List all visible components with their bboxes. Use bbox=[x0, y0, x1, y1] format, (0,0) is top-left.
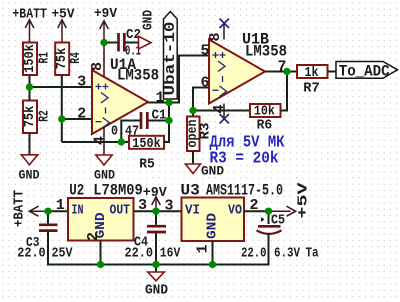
pin 2 stub U2 bbox=[100, 241, 102, 265]
power flag +5V (top) bbox=[58, 20, 67, 42]
wire pin2 bbox=[62, 118, 92, 120]
svg-text:2: 2 bbox=[85, 232, 102, 241]
junction dots overlay bbox=[26, 39, 291, 268]
svg-text:To_ADC: To_ADC bbox=[339, 63, 390, 81]
wire R6 left bbox=[193, 110, 250, 112]
svg-text:U3: U3 bbox=[180, 182, 200, 200]
junction U2 gnd rail bbox=[97, 261, 104, 268]
pin 1 stub U3 bbox=[212, 241, 214, 265]
svg-text:R4: R4 bbox=[68, 52, 84, 64]
svg-text:3: 3 bbox=[77, 74, 86, 91]
global label Ubat-10 bbox=[164, 12, 178, 100]
resistor R1 bbox=[23, 43, 37, 76]
junction node R4/pin2 bbox=[58, 115, 65, 122]
regulator U2 bbox=[68, 198, 134, 241]
junction +BATT/C3 bbox=[44, 208, 51, 215]
svg-text:Ubat-10: Ubat-10 bbox=[162, 22, 179, 96]
junction C1 right bbox=[165, 117, 172, 124]
junction +9V/C2 bbox=[100, 39, 107, 46]
svg-text:22.0: 22.0 bbox=[17, 245, 46, 261]
svg-text:+BATT: +BATT bbox=[12, 7, 47, 23]
capacitor C4 bbox=[155, 211, 157, 225]
svg-text:16V: 16V bbox=[160, 245, 181, 261]
wire R5 right bbox=[164, 103, 169, 143]
svg-text:6: 6 bbox=[201, 75, 210, 92]
svg-text:U2: U2 bbox=[69, 182, 84, 200]
ground bottom rail bbox=[148, 272, 164, 281]
svg-text:VO: VO bbox=[228, 203, 242, 219]
svg-text:R2: R2 bbox=[36, 110, 52, 122]
svg-text:GND: GND bbox=[19, 168, 40, 182]
junction node C1 left bbox=[118, 138, 125, 145]
power flag +5V (right, rotated) bbox=[269, 206, 296, 216]
svg-text:8: 8 bbox=[207, 32, 224, 41]
wire R1 to R2 bbox=[30, 76, 141, 155]
ground under R2 bbox=[21, 155, 37, 165]
capacitor C2 bbox=[119, 33, 125, 52]
ground bottom rail stub bbox=[155, 265, 157, 273]
svg-text:150k: 150k bbox=[132, 136, 161, 152]
svg-text:L78M09: L78M09 bbox=[93, 182, 143, 200]
op-amp U1A bbox=[92, 70, 148, 134]
capacitor C5 (polarized) bbox=[268, 211, 270, 224]
svg-text:+5V: +5V bbox=[296, 182, 312, 219]
svg-text:AMS1117-5.0: AMS1117-5.0 bbox=[206, 182, 283, 200]
svg-text:VI: VI bbox=[185, 203, 200, 219]
svg-text:22.0: 22.0 bbox=[125, 245, 154, 261]
svg-text:3: 3 bbox=[165, 198, 174, 215]
wire pin3 net bbox=[30, 86, 93, 88]
power flag +9V (top) bbox=[100, 21, 109, 54]
svg-text:Ta: Ta bbox=[306, 246, 319, 262]
U1B pin name marks bbox=[213, 52, 227, 97]
power flag +BATT (top) bbox=[25, 20, 34, 42]
svg-text:OUT: OUT bbox=[110, 203, 131, 219]
wire R6 right up to output bbox=[281, 72, 288, 111]
svg-text:+5V: +5V bbox=[52, 7, 76, 23]
wire R4 down to pin2 bbox=[61, 76, 63, 143]
pin 8 stub bbox=[103, 54, 105, 77]
no-connect X pin8 bbox=[220, 19, 230, 29]
svg-text:R3 = 20k: R3 = 20k bbox=[210, 149, 279, 168]
capacitor C1 bbox=[141, 112, 147, 129]
wire R7 to label bbox=[328, 71, 337, 73]
wire C2 to GND bbox=[126, 42, 139, 44]
wire C4 to rail bbox=[155, 233, 157, 264]
svg-text:1: 1 bbox=[56, 197, 65, 214]
junction output node bbox=[165, 99, 172, 106]
resistor R5 bbox=[129, 136, 164, 149]
svg-text:4: 4 bbox=[211, 104, 228, 113]
U1A pin name marks bbox=[96, 84, 110, 129]
svg-text:25V: 25V bbox=[52, 245, 73, 261]
wire C3 to rail bbox=[48, 232, 101, 265]
svg-text:5: 5 bbox=[201, 43, 210, 60]
svg-text:+9V: +9V bbox=[94, 6, 118, 22]
svg-text:GND: GND bbox=[141, 10, 157, 30]
power flag +BATT (left, rotated) bbox=[29, 206, 48, 216]
pin 8 stub U1B bbox=[223, 24, 225, 40]
junction node R1/R2 bbox=[26, 83, 33, 90]
svg-text:R6: R6 bbox=[257, 117, 273, 133]
resistor R6 bbox=[250, 104, 281, 117]
wire U1A output bbox=[148, 56, 209, 103]
wire pin6 feedback bbox=[193, 88, 209, 117]
junction U3 gnd rail bbox=[209, 261, 216, 268]
svg-text:2: 2 bbox=[250, 197, 259, 214]
ground under R3 bbox=[186, 164, 201, 174]
svg-text:C5: C5 bbox=[271, 212, 285, 228]
svg-text:6.3V: 6.3V bbox=[274, 246, 300, 262]
junction OUT node bbox=[152, 208, 159, 215]
svg-text:R5: R5 bbox=[139, 157, 155, 173]
wire R2 to GND bbox=[29, 134, 31, 155]
svg-text:LM358: LM358 bbox=[117, 67, 159, 85]
pin 4 stub bbox=[103, 127, 105, 155]
resistor R4 bbox=[55, 43, 69, 76]
wire C1 left branch bbox=[121, 121, 140, 143]
svg-text:GND: GND bbox=[145, 283, 168, 299]
op-amp U1B bbox=[209, 40, 265, 104]
wire C5 to rail bbox=[213, 234, 269, 265]
wire to C2 bbox=[104, 42, 117, 44]
svg-text:GND: GND bbox=[205, 213, 221, 239]
gnd rail wire bbox=[101, 264, 213, 266]
svg-text:2: 2 bbox=[77, 106, 86, 123]
svg-text:+BATT: +BATT bbox=[12, 190, 28, 227]
regulator U3 bbox=[182, 198, 245, 242]
svg-text:GND: GND bbox=[94, 168, 115, 182]
svg-text:22.0: 22.0 bbox=[241, 246, 267, 262]
capacitor C3 bbox=[47, 211, 49, 223]
svg-text:R1: R1 bbox=[36, 52, 52, 64]
junction VO node bbox=[265, 208, 272, 215]
power flag +9V (middle) bbox=[152, 197, 161, 211]
wire U1B output bbox=[265, 71, 297, 73]
ground right of C2 (rotated) bbox=[139, 36, 152, 49]
wire feedback bottom bbox=[62, 141, 129, 143]
svg-text:1k: 1k bbox=[305, 65, 319, 81]
svg-text:R7: R7 bbox=[303, 81, 320, 97]
pin 4 stub U1B bbox=[223, 104, 225, 119]
resistor R7 bbox=[297, 65, 328, 78]
svg-text:1: 1 bbox=[195, 244, 212, 253]
junction pin6 node bbox=[189, 107, 196, 114]
global label To_ADC bbox=[336, 62, 398, 79]
wire U3 VO bbox=[244, 210, 269, 212]
wire C1 right bbox=[148, 120, 169, 122]
wire to U2 IN bbox=[48, 210, 68, 212]
wire R3 to GND bbox=[192, 151, 194, 164]
junction C4 rail bbox=[152, 261, 159, 268]
svg-text:IN: IN bbox=[72, 203, 84, 219]
junction output U1B bbox=[283, 68, 290, 75]
wire U2 OUT bbox=[134, 210, 182, 212]
ground under U1A pin4 bbox=[96, 155, 112, 165]
svg-text:4: 4 bbox=[92, 136, 109, 145]
no-connect X pin4 bbox=[220, 114, 230, 124]
resistor R2 bbox=[23, 101, 37, 134]
resistor R3 (open) bbox=[187, 117, 200, 152]
